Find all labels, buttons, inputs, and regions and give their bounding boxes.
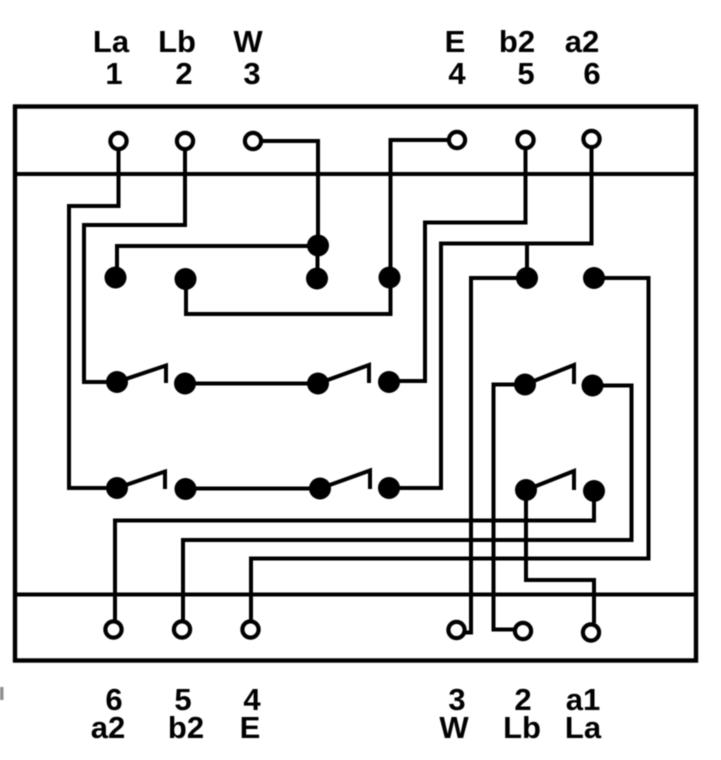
svg-text:Lb: Lb <box>503 710 541 745</box>
link spring 3a to 3b <box>316 246 320 279</box>
wire spring 1 to spring 3a <box>117 246 318 278</box>
contact k1b right dot <box>378 371 400 393</box>
label terminal 3 top: W <box>233 24 263 91</box>
bottom terminal 6 (a2) <box>105 621 121 637</box>
svg-text:b2: b2 <box>168 710 204 745</box>
contact k4 right dot <box>583 480 605 502</box>
terminal 4 (E) top <box>449 132 465 148</box>
terminal 6 (a2) top <box>583 131 599 147</box>
wire terminal 3 to jack spring 3a <box>261 141 318 246</box>
wire k1 middle to k1b left <box>185 382 318 386</box>
label bottom terminal 4: E <box>240 682 262 745</box>
contact k1 blade <box>117 366 166 384</box>
svg-text:4: 4 <box>448 56 466 91</box>
label bottom terminal 6: a2 <box>91 682 125 745</box>
svg-text:E: E <box>445 24 466 59</box>
wire k3 left to bottom terminal 2 (Lb) <box>494 385 526 630</box>
label terminal 5 top: b2 <box>499 24 535 91</box>
svg-text:La: La <box>93 24 130 59</box>
bottom terminal 5 (b2) <box>174 621 190 637</box>
contact k1b blade <box>318 365 369 384</box>
wire terminal 4 via spring 4 to spring 2 drop <box>186 140 449 314</box>
wire terminal 6 to contact k2 right <box>389 147 592 488</box>
wire spring 6 to bottom terminal 4 (E) <box>251 278 649 620</box>
contact k2 middle dot <box>175 478 197 500</box>
bottom terminal 4 (E) <box>242 621 258 637</box>
wire terminal 5 to contact k1 right <box>389 148 526 381</box>
svg-text:La: La <box>565 710 602 745</box>
svg-text:1: 1 <box>105 56 122 91</box>
page-edge mark (cropped character at left margin) <box>0 687 4 700</box>
bottom contact strip line <box>13 593 697 597</box>
svg-text:Lb: Lb <box>158 24 196 59</box>
contact k2 left dot <box>106 477 128 499</box>
label terminal 6 top: a2 <box>565 24 601 91</box>
jack spring 3a (upper dot, W) <box>307 235 329 257</box>
wire k2 middle to k2b left <box>186 487 321 491</box>
svg-text:a2: a2 <box>91 710 125 745</box>
svg-text:W: W <box>233 24 263 59</box>
svg-text:6: 6 <box>583 56 600 91</box>
jack spring 3b (lower dot) <box>306 268 328 290</box>
svg-text:3: 3 <box>243 56 260 91</box>
contact k1b left dot <box>307 373 329 395</box>
label terminal 1 top: La <box>93 24 130 91</box>
label bottom terminal 5: b2 <box>168 682 204 745</box>
jack spring 1 (dot under La) <box>105 267 127 289</box>
jack spring 6 (dot, a2) <box>583 267 605 289</box>
svg-text:E: E <box>240 710 261 745</box>
wire k4 right to bottom terminal 6 (a2) <box>115 491 594 620</box>
label terminal 4 top: E <box>445 24 467 91</box>
contact k2b left dot <box>309 478 331 500</box>
contact k4 blade <box>526 471 574 490</box>
jack spring 2 (dot under Lb) <box>175 268 197 290</box>
svg-text:5: 5 <box>517 56 534 91</box>
terminal 3 (W) top <box>245 133 261 149</box>
svg-text:a2: a2 <box>565 24 599 59</box>
wire k4 left to bottom terminal a1 (La) <box>526 490 594 623</box>
contact k1 left dot <box>106 371 128 393</box>
svg-text:W: W <box>439 710 469 745</box>
bottom terminal 2 (Lb) <box>515 623 531 639</box>
label bottom terminal 3: W <box>439 682 469 745</box>
contact k2b right dot <box>378 477 400 499</box>
wire terminal 1 to contact k2 left <box>69 149 119 488</box>
label bottom terminal a1: La <box>565 682 602 745</box>
contact k1 middle dot <box>174 373 196 395</box>
contact k2b blade <box>320 471 370 490</box>
contact k3 right dot <box>582 375 604 397</box>
contact k3 left dot <box>514 374 536 396</box>
bottom terminal a1 (La) <box>583 624 599 640</box>
terminal 5 (b2) top <box>517 132 533 148</box>
terminal 2 (Lb) top <box>177 133 193 149</box>
contact k4 left dot <box>515 479 537 501</box>
wire k3 right to bottom terminal 5 (b2) <box>183 386 632 621</box>
label bottom terminal 2: Lb <box>503 682 541 745</box>
svg-text:2: 2 <box>175 56 192 91</box>
jack spring 5 (dot, b2) <box>516 267 538 289</box>
bottom terminal 3 (W) <box>448 622 464 638</box>
terminal 1 (La) top <box>110 133 126 149</box>
contact k3 blade <box>525 365 574 385</box>
wire spring 5 to bottom terminal 3 (W) <box>464 278 527 633</box>
svg-text:b2: b2 <box>499 24 535 59</box>
contact k2 blade <box>117 472 165 490</box>
label terminal 2 top: Lb <box>158 24 196 91</box>
top contact strip line <box>13 172 697 176</box>
wire terminal 2 to contact k1 left <box>84 149 185 382</box>
socket case outline <box>15 107 696 661</box>
jack spring 4 (dot on E wire) <box>379 267 401 289</box>
branch wire to jack spring 5 <box>525 244 529 279</box>
